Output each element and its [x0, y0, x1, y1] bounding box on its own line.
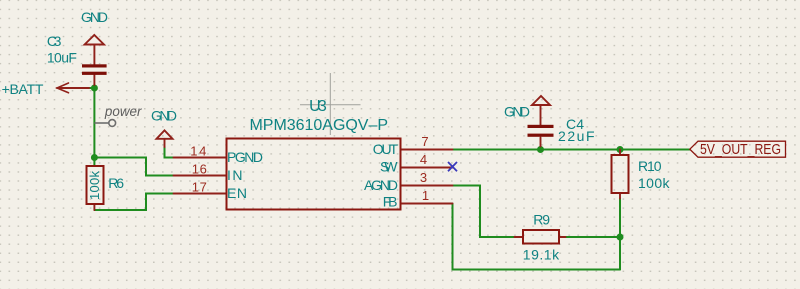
svg-text:22uF: 22uF: [558, 128, 595, 144]
svg-text:EN: EN: [227, 185, 247, 201]
svg-text:19.1k: 19.1k: [523, 247, 560, 263]
svg-text:4: 4: [420, 152, 427, 167]
svg-text:GND: GND: [151, 108, 177, 124]
svg-text:power: power: [104, 103, 143, 119]
svg-text:R6: R6: [108, 175, 124, 191]
svg-text:FB: FB: [383, 194, 398, 210]
svg-text:MPM3610AGQV–P: MPM3610AGQV–P: [250, 117, 389, 134]
svg-text:5V_OUT_REG: 5V_OUT_REG: [700, 141, 781, 158]
svg-text:GND: GND: [81, 9, 108, 25]
svg-text:100k: 100k: [87, 171, 102, 201]
svg-text:3: 3: [420, 170, 427, 185]
svg-text:100k: 100k: [638, 175, 671, 191]
svg-text:OUT: OUT: [373, 141, 399, 157]
svg-text:IN: IN: [227, 167, 243, 183]
svg-text:10uF: 10uF: [47, 50, 77, 66]
svg-text:SW: SW: [380, 159, 398, 175]
svg-text:U3: U3: [309, 98, 327, 115]
svg-text:C3: C3: [47, 33, 62, 49]
svg-text:GND: GND: [504, 104, 530, 120]
svg-text:PGND: PGND: [227, 149, 263, 165]
svg-text:AGND: AGND: [364, 177, 398, 193]
svg-text:R9: R9: [533, 212, 550, 228]
svg-text:17: 17: [192, 180, 207, 195]
svg-text:14: 14: [190, 144, 206, 159]
svg-text:+BATT: +BATT: [2, 81, 44, 97]
svg-text:16: 16: [192, 162, 207, 177]
svg-text:7: 7: [421, 134, 428, 149]
svg-text:1: 1: [422, 188, 429, 203]
svg-text:R10: R10: [638, 158, 662, 174]
